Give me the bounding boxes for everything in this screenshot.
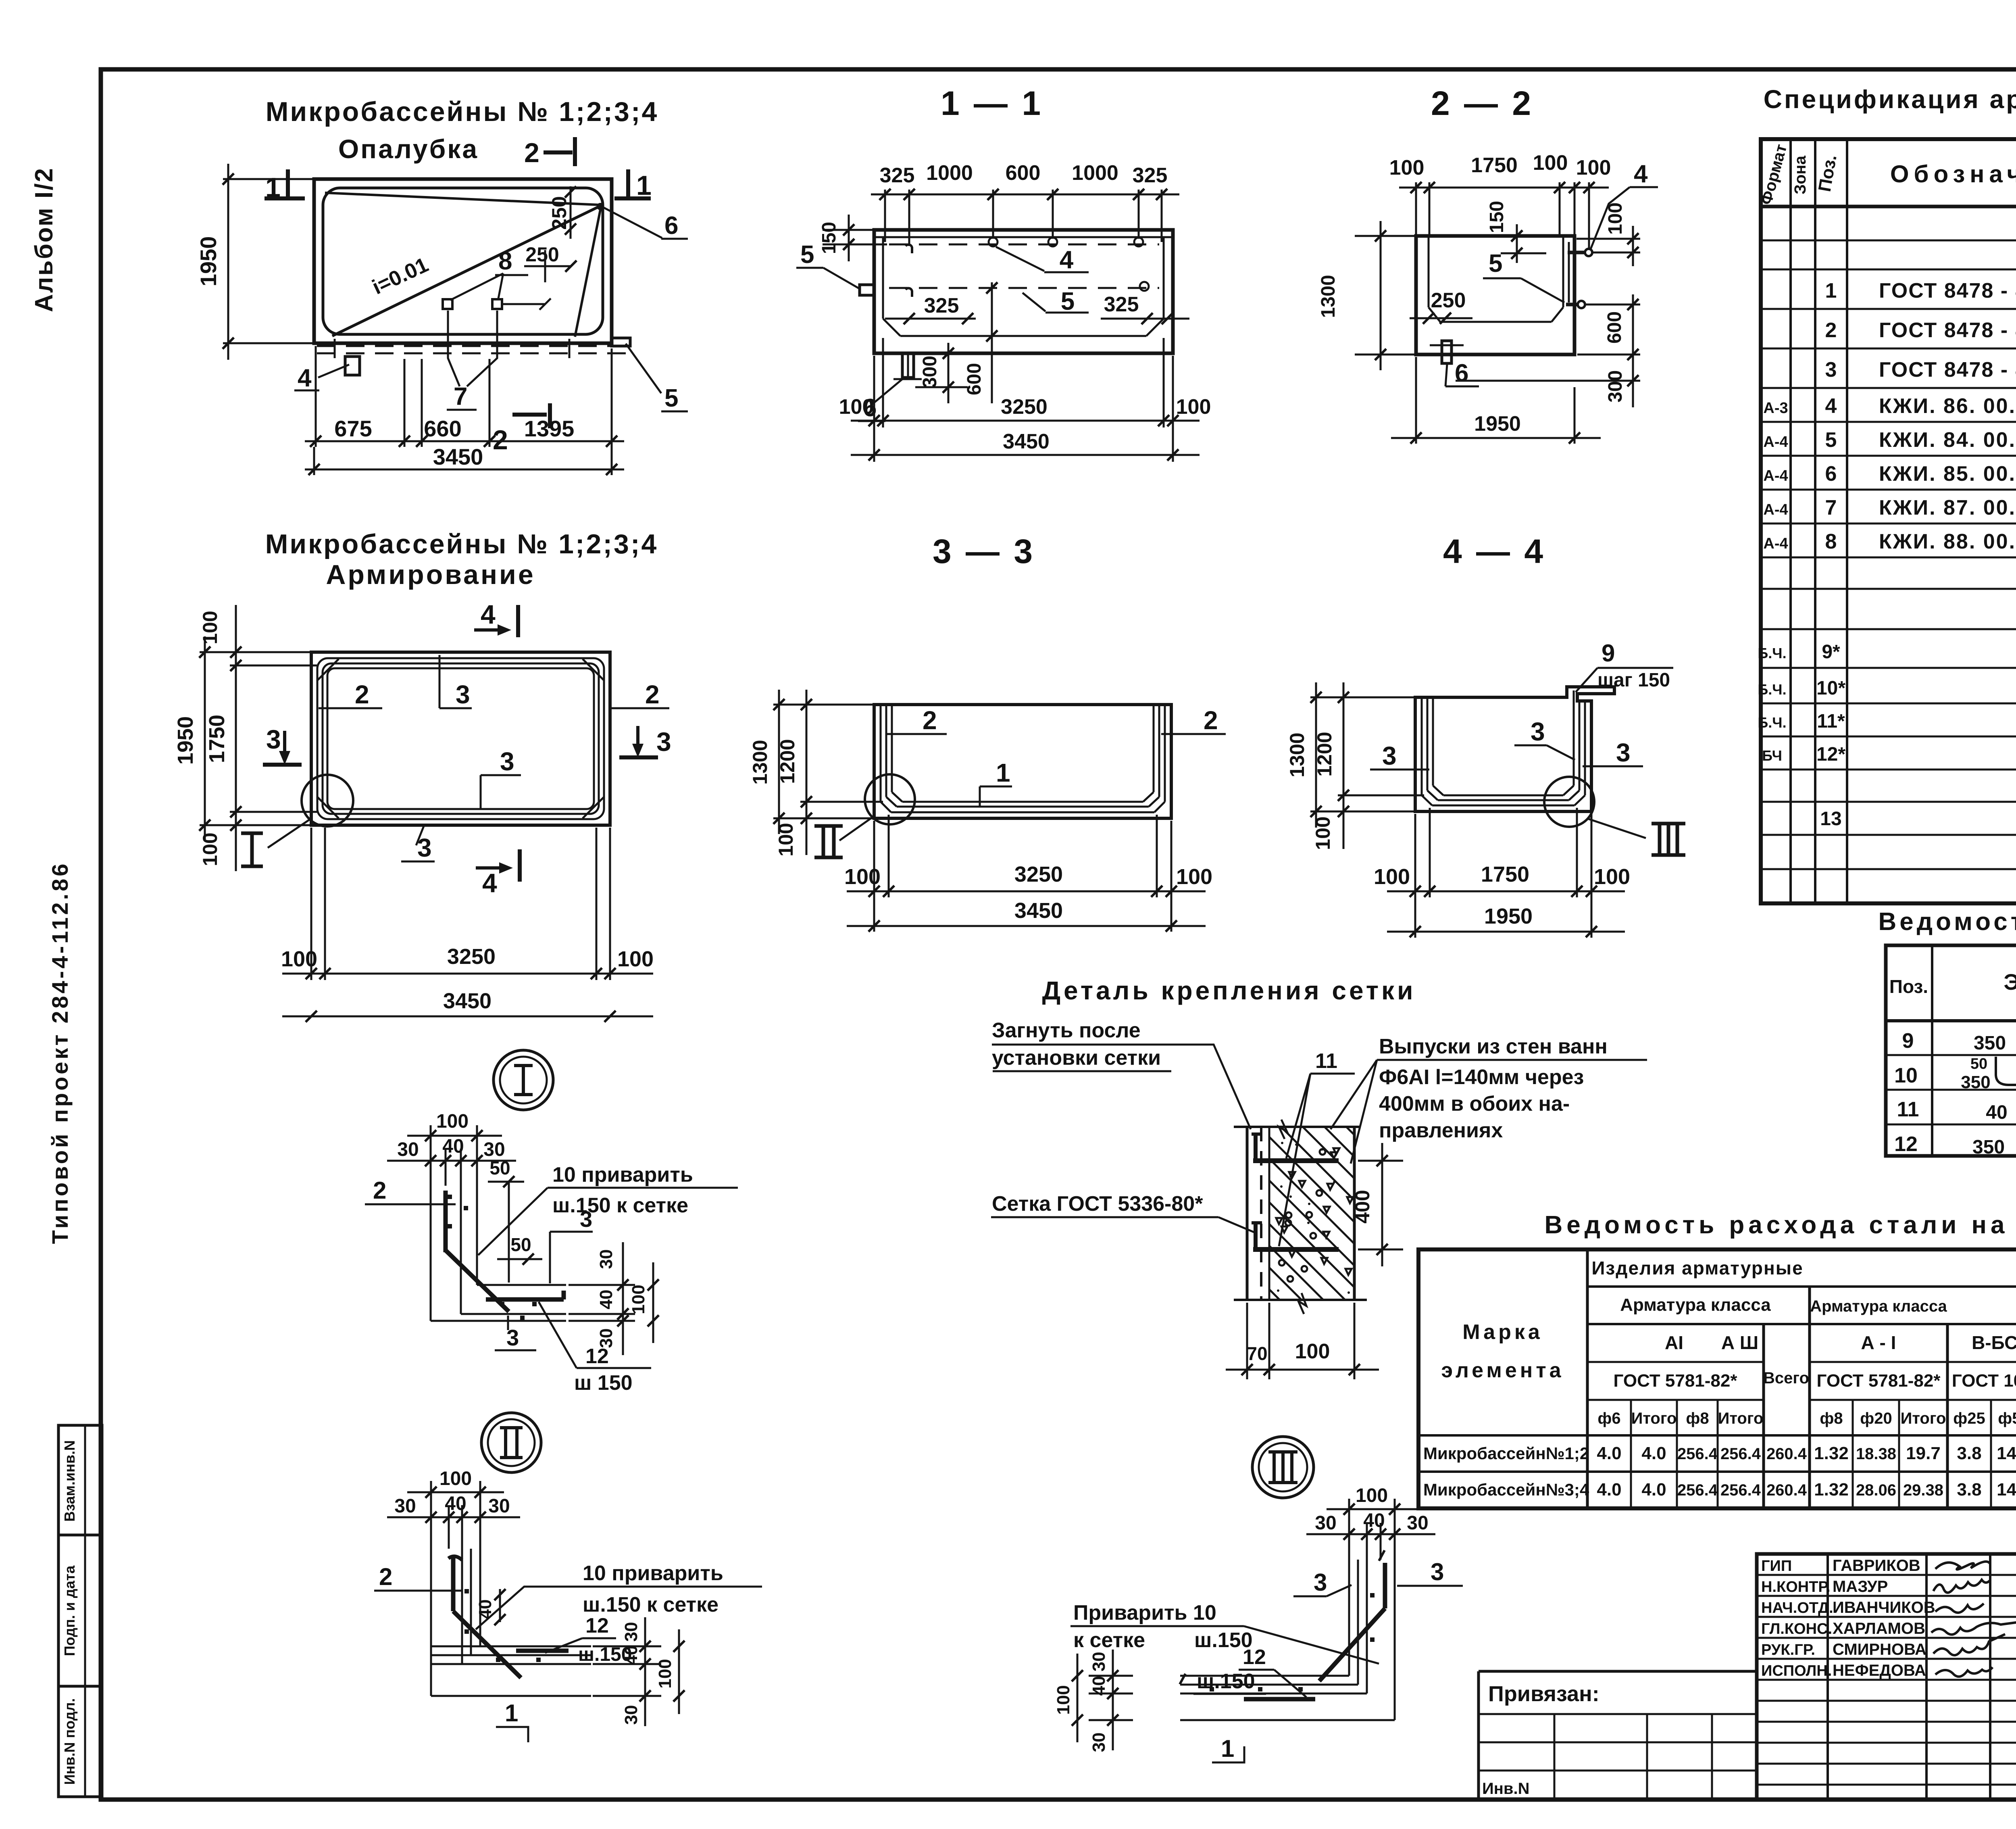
bath 2-2 right wall inner a	[1562, 236, 1564, 307]
floor mesh horizontal lines	[477, 1284, 566, 1286]
svg-text:5: 5	[664, 384, 678, 412]
anchor circle row1 b	[1048, 238, 1057, 246]
svg-text:325: 325	[1133, 164, 1168, 187]
svg-text:260.4: 260.4	[1766, 1445, 1807, 1463]
detail II circle marker	[481, 1413, 541, 1472]
corner diagonal bar	[446, 1250, 509, 1312]
steel table horizontals	[1587, 1285, 2016, 1288]
svg-text:30: 30	[1407, 1512, 1428, 1534]
svg-text:100: 100	[775, 823, 797, 856]
label 3 middle	[1514, 745, 1547, 747]
svg-text:100: 100	[655, 1659, 675, 1688]
reinforcement plan outer outline	[311, 652, 610, 825]
svg-text:ГАВРИКОВ: ГАВРИКОВ	[1833, 1557, 1920, 1575]
svg-text:13: 13	[1820, 808, 1841, 830]
svg-text:4: 4	[1825, 394, 1837, 418]
svg-text:2: 2	[379, 1563, 392, 1590]
floor mesh horizontal lines	[1180, 1675, 1349, 1677]
svg-text:КЖИ. 87. 00. 0: КЖИ. 87. 00. 0	[1879, 496, 2016, 519]
svg-text:ГИП: ГИП	[1761, 1558, 1792, 1575]
chamfer left	[883, 319, 900, 336]
bath 2-2 left wall inner	[1428, 236, 1430, 307]
svg-text:30: 30	[621, 1705, 641, 1725]
svg-text:КЖИ. 88. 00. 0: КЖИ. 88. 00. 0	[1879, 530, 2016, 553]
svg-text:100: 100	[1389, 156, 1425, 179]
bottom drain pipe	[1442, 341, 1452, 363]
svg-text:3: 3	[580, 1206, 592, 1232]
svg-text:А-4: А-4	[1763, 467, 1788, 484]
svg-text:МАЗУР: МАЗУР	[1833, 1578, 1888, 1595]
svg-text:РУК.ГР.: РУК.ГР.	[1761, 1641, 1815, 1658]
dim 100 above	[1348, 1499, 1350, 1560]
wall fitting right 5	[1566, 303, 1579, 307]
svg-text:КЖИ. 84. 00. 0: КЖИ. 84. 00. 0	[1879, 428, 2016, 452]
concrete hatching	[1269, 1289, 1280, 1300]
svg-text:А Ш: А Ш	[1721, 1332, 1758, 1353]
svg-text:400: 400	[1351, 1190, 1374, 1223]
svg-text:9*: 9*	[1822, 641, 1840, 663]
svg-text:28.06: 28.06	[1856, 1481, 1896, 1499]
svg-text:Загнуть после: Загнуть после	[992, 1019, 1141, 1042]
right dim 100	[1577, 238, 1640, 240]
right edge fitting 5	[612, 338, 630, 346]
dim 250 top right rotated	[570, 186, 572, 239]
svg-text:12: 12	[585, 1345, 609, 1368]
corner mesh tick BR	[583, 797, 604, 818]
svg-text:2: 2	[1825, 319, 1837, 342]
svg-text:675: 675	[334, 416, 372, 441]
bar section dots	[1370, 1593, 1375, 1598]
svg-text:Итого: Итого	[1718, 1410, 1764, 1427]
svg-text:100: 100	[844, 865, 881, 889]
svg-text:100: 100	[1605, 202, 1626, 235]
dim 150 inner top	[1516, 224, 1518, 263]
dim 400 right	[1358, 1160, 1403, 1162]
svg-text:400мм в обоих на-: 400мм в обоих на-	[1379, 1092, 1570, 1116]
svg-text:9: 9	[1902, 1029, 1914, 1053]
anchor circle row1 a	[989, 238, 998, 246]
slope ridge line top	[325, 193, 600, 205]
svg-text:30: 30	[1315, 1512, 1336, 1534]
dim 40 rotated	[499, 1589, 501, 1622]
svg-text:100: 100	[199, 611, 221, 644]
label 6 bottom leader	[871, 379, 902, 405]
svg-text:ф8: ф8	[1820, 1410, 1843, 1427]
anchor line to right with tick	[502, 303, 545, 305]
bottom dims row1	[1414, 814, 1416, 938]
dashed channel strip line 2	[317, 352, 626, 355]
bottom dims row2 3450	[282, 1016, 653, 1018]
roman numeral III label	[1652, 822, 1685, 826]
svg-text:1200: 1200	[776, 739, 799, 784]
svg-text:19.7: 19.7	[1906, 1443, 1941, 1463]
svg-text:350: 350	[1972, 1137, 2005, 1158]
svg-text:Зона: Зона	[1791, 155, 1809, 194]
svg-text:30: 30	[1089, 1733, 1109, 1752]
svg-text:100: 100	[629, 1285, 648, 1314]
svg-text:1: 1	[505, 1700, 518, 1727]
svg-text:3450: 3450	[1003, 430, 1050, 453]
svg-text:НАЧ.ОТД.: НАЧ.ОТД.	[1761, 1600, 1833, 1616]
left dim 1300	[773, 704, 873, 706]
right dim 300	[1456, 380, 1640, 382]
svg-text:Деталь крепления сетки: Деталь крепления сетки	[1042, 976, 1416, 1005]
label 2 right	[610, 707, 669, 709]
svg-text:100: 100	[1356, 1485, 1388, 1506]
svg-text:А-3: А-3	[1763, 400, 1788, 417]
svg-text:3: 3	[266, 724, 281, 754]
svg-text:11: 11	[1315, 1049, 1337, 1073]
detail circle II	[865, 774, 915, 824]
svg-text:100: 100	[1533, 151, 1568, 175]
svg-text:30: 30	[621, 1622, 641, 1642]
svg-text:Приварить 10: Приварить 10	[1073, 1601, 1216, 1625]
svg-text:12: 12	[1243, 1645, 1266, 1669]
wall mesh vertical lines	[1394, 1560, 1396, 1720]
chamfer left	[1429, 307, 1440, 322]
svg-text:ГОСТ 5781-82*: ГОСТ 5781-82*	[1817, 1371, 1941, 1391]
dim 300 pipe vertical	[948, 343, 950, 403]
svg-text:4.0: 4.0	[1641, 1480, 1666, 1499]
svg-text:30: 30	[1089, 1652, 1109, 1672]
svg-text:2: 2	[524, 138, 539, 168]
top dim chain	[1415, 182, 1417, 234]
svg-text:100: 100	[1295, 1340, 1330, 1363]
chamfers	[1422, 795, 1432, 805]
margin stamp boxes bottom-left	[58, 1425, 102, 1797]
leader 5 to right fitting	[626, 344, 661, 393]
svg-text:Опалубка: Опалубка	[338, 134, 479, 164]
svg-text:3450: 3450	[433, 444, 483, 469]
svg-text:30: 30	[596, 1249, 616, 1269]
svg-text:7: 7	[1825, 496, 1837, 519]
svg-text:1: 1	[996, 758, 1010, 787]
svg-text:Взам.инв.N: Взам.инв.N	[61, 1440, 78, 1522]
bottom dims 70 100	[1246, 1303, 1248, 1379]
svg-text:8: 8	[1825, 530, 1837, 553]
svg-text:350: 350	[1961, 1072, 1990, 1092]
svg-text:18.38: 18.38	[1856, 1445, 1896, 1463]
corner diagonal bar	[1319, 1608, 1385, 1681]
leader 4 to outlet	[318, 365, 349, 377]
left dim 1300	[1310, 697, 1414, 699]
mesh lines right wall	[1164, 705, 1166, 802]
dim 150 left	[823, 229, 873, 231]
spec table outer	[1761, 139, 2016, 903]
svg-text:4 — 4: 4 — 4	[1443, 532, 1545, 570]
dim 100 above	[430, 1481, 432, 1549]
left dim 100	[1077, 1654, 1079, 1742]
svg-text:к сетке: к сетке	[1073, 1629, 1145, 1652]
svg-text:600: 600	[1006, 161, 1041, 185]
mesh outline 1	[317, 658, 604, 819]
mesh lines right wall	[1584, 701, 1586, 795]
svg-text:40: 40	[1089, 1676, 1109, 1696]
anchor hook row2 left	[906, 288, 912, 297]
dim 1950 left: witness lines	[223, 178, 315, 180]
formwork plan outer outline	[314, 179, 612, 343]
left dim 1200 + 100	[1338, 795, 1424, 797]
svg-text:30: 30	[394, 1495, 416, 1517]
anchor circle row2 right	[1140, 282, 1149, 291]
steel table outer	[1418, 1249, 2016, 1508]
svg-text:2: 2	[923, 706, 937, 735]
svg-text:600: 600	[1604, 311, 1625, 344]
svg-text:Б.Ч.: Б.Ч.	[1758, 645, 1786, 661]
svg-text:3: 3	[1314, 1569, 1327, 1596]
svg-text:4: 4	[482, 868, 497, 898]
svg-text:СМИРНОВА: СМИРНОВА	[1833, 1641, 1926, 1658]
svg-text:3250: 3250	[1001, 395, 1048, 419]
svg-text:14.3: 14.3	[1997, 1443, 2016, 1463]
svg-text:10 приварить: 10 приварить	[583, 1562, 723, 1585]
svg-text:установки сетки: установки сетки	[992, 1046, 1161, 1070]
mesh lines left wall	[880, 705, 882, 802]
svg-text:14.3: 14.3	[1997, 1480, 2016, 1499]
svg-text:ГОСТ 8478 - 81: ГОСТ 8478 - 81	[1879, 279, 2016, 302]
label 3 top	[439, 655, 441, 708]
svg-text:70: 70	[1247, 1343, 1267, 1364]
svg-text:50: 50	[1970, 1055, 1987, 1072]
svg-text:3250: 3250	[1014, 862, 1063, 886]
svg-text:2: 2	[645, 680, 660, 709]
svg-text:Арматура класса: Арматура класса	[1810, 1297, 1947, 1315]
svg-text:260.4: 260.4	[1766, 1481, 1807, 1499]
leader 7 from anchors	[448, 311, 460, 386]
svg-text:А-4: А-4	[1763, 434, 1788, 450]
channel tick 2	[447, 339, 449, 358]
right dims 30 40 30	[569, 1284, 635, 1286]
svg-text:250: 250	[525, 243, 559, 266]
svg-text:1750: 1750	[205, 715, 229, 763]
svg-text:4: 4	[481, 599, 496, 629]
bath 4-4 outer outline	[1415, 687, 1614, 811]
svg-text:4.0: 4.0	[1597, 1443, 1621, 1463]
svg-text:40: 40	[596, 1290, 616, 1310]
dim 100 above	[430, 1125, 432, 1186]
left dim 1950	[200, 651, 313, 653]
anchor circle row1 c	[1134, 238, 1143, 246]
svg-text:А - I: А - I	[1861, 1332, 1896, 1353]
svg-text:10: 10	[1894, 1064, 1918, 1087]
label 2 right	[1161, 733, 1226, 735]
bent bar top	[1254, 1132, 1258, 1161]
svg-text:Изделия арматурные: Изделия арматурные	[1591, 1258, 1803, 1278]
svg-text:3.8: 3.8	[1957, 1480, 1981, 1499]
svg-text:6: 6	[1825, 462, 1837, 486]
svg-text:КЖИ. 85. 00. 0: КЖИ. 85. 00. 0	[1879, 462, 2016, 486]
wall mesh vertical lines	[430, 1186, 432, 1321]
svg-text:Привязан:: Привязан:	[1488, 1682, 1599, 1706]
detail I circle marker	[494, 1050, 553, 1110]
bottom drain pipe	[902, 353, 914, 377]
svg-text:Микробассейны № 1;2;3;4: Микробассейны № 1;2;3;4	[266, 96, 659, 127]
svg-text:1750: 1750	[1481, 862, 1529, 886]
label 3 bottom	[416, 825, 424, 845]
svg-text:1: 1	[636, 170, 652, 201]
svg-text:100: 100	[1312, 816, 1334, 850]
corner diagonal bar	[453, 1611, 521, 1678]
svg-text:100: 100	[439, 1468, 472, 1489]
left dim 1750 + 100s	[230, 665, 319, 667]
svg-text:Н.КОНТР.: Н.КОНТР.	[1761, 1579, 1831, 1595]
svg-text:1.32: 1.32	[1814, 1443, 1849, 1463]
svg-text:4: 4	[1634, 160, 1648, 188]
svg-text:Ведомость деталей: Ведомость деталей	[1879, 908, 2016, 936]
svg-text:325: 325	[880, 164, 915, 187]
svg-text:Поз.: Поз.	[1889, 976, 1928, 997]
chamfer right	[1552, 307, 1563, 322]
svg-text:ф20: ф20	[1860, 1410, 1892, 1427]
dim 325 inner right	[1101, 318, 1189, 320]
dim 30 40 30 above	[445, 1149, 447, 1186]
svg-text:5: 5	[800, 241, 814, 269]
svg-text:100: 100	[617, 947, 654, 971]
dim 1950 line	[227, 164, 229, 360]
svg-text:100: 100	[281, 947, 317, 971]
bath 1-1 rim inner line	[874, 236, 1173, 238]
svg-text:6: 6	[664, 212, 678, 240]
svg-text:Б.Ч.: Б.Ч.	[1758, 681, 1786, 698]
anchor hook row1 left	[906, 244, 912, 253]
svg-text:256.4: 256.4	[1720, 1481, 1761, 1499]
svg-text:1: 1	[1825, 279, 1837, 302]
svg-text:10 приварить: 10 приварить	[552, 1163, 693, 1187]
top dim chain line	[871, 194, 1179, 196]
bottom dim 1950	[1415, 357, 1417, 444]
svg-text:1.32: 1.32	[1814, 1480, 1849, 1499]
svg-text:3 — 3: 3 — 3	[933, 532, 1035, 570]
hidden anchors dashed row 2	[889, 287, 1159, 289]
svg-text:Микробассейн№3;4: Микробассейн№3;4	[1423, 1480, 1589, 1499]
dim 600 mid vertical	[991, 282, 993, 403]
svg-text:ш 150: ш 150	[574, 1371, 633, 1395]
svg-text:660: 660	[424, 416, 461, 441]
svg-text:1950: 1950	[196, 236, 221, 287]
steel table verticals	[1586, 1249, 1589, 1508]
vedomost detaley table outer	[1886, 945, 2016, 1156]
svg-text:5: 5	[1825, 428, 1837, 452]
embedded anchor square 2	[492, 299, 502, 309]
svg-text:Инв.N подл.: Инв.N подл.	[61, 1698, 78, 1785]
svg-text:ХАРЛАМОВ: ХАРЛАМОВ	[1833, 1620, 1925, 1637]
anchor hook top right 4	[1568, 251, 1586, 254]
svg-text:ГЛ.КОНС.: ГЛ.КОНС.	[1761, 1620, 1832, 1637]
svg-text:Армирование: Армирование	[326, 559, 535, 590]
break marks	[1279, 1120, 1287, 1139]
left dim 1200 + 100	[800, 801, 883, 803]
signatures	[1935, 1562, 1990, 1570]
svg-text:11*: 11*	[1817, 711, 1845, 732]
svg-text:Спецификация армирования мик: Спецификация армирования микробассейнов …	[1764, 85, 2016, 114]
svg-text:100: 100	[839, 395, 874, 419]
svg-text:40: 40	[1986, 1102, 2007, 1123]
svg-text:3450: 3450	[443, 989, 492, 1013]
svg-text:325: 325	[924, 294, 959, 317]
concrete dots and triangles	[1307, 1222, 1310, 1224]
svg-text:12*: 12*	[1816, 744, 1845, 765]
formwork plan inner outline	[323, 188, 603, 334]
mesh dashed line	[1260, 1127, 1262, 1300]
svg-text:ГОСТ 8478 - 81: ГОСТ 8478 - 81	[1879, 319, 2016, 342]
svg-text:Итого: Итого	[1631, 1410, 1677, 1427]
channel tick 3	[496, 339, 498, 358]
detail circle III	[1544, 777, 1594, 827]
svg-text:5: 5	[1061, 288, 1075, 315]
svg-text:5: 5	[1489, 250, 1502, 277]
right short diagonal	[575, 210, 600, 337]
svg-text:1750: 1750	[1471, 154, 1518, 177]
mesh lines left wall	[1421, 697, 1423, 795]
svg-text:40: 40	[475, 1600, 495, 1619]
wall mesh vertical lines	[430, 1549, 432, 1696]
svg-text:9: 9	[1602, 640, 1615, 667]
svg-text:Арматура класса: Арматура класса	[1620, 1295, 1771, 1315]
svg-text:НЕФЕДОВА: НЕФЕДОВА	[1833, 1662, 1926, 1679]
embedded anchor square 1	[443, 299, 452, 309]
svg-text:ГОСТ 8478 - 81: ГОСТ 8478 - 81	[1879, 358, 2016, 382]
svg-text:элемента: элемента	[1441, 1359, 1564, 1382]
svg-text:250: 250	[548, 196, 571, 229]
wall section outline	[1234, 1126, 1361, 1128]
svg-text:Поз.: Поз.	[1815, 153, 1841, 193]
svg-text:Эскиз: Эскиз	[2004, 969, 2016, 995]
svg-text:256.4: 256.4	[1677, 1445, 1718, 1463]
bath 3-3 outer outline	[874, 705, 1171, 818]
label 4 with leader	[996, 247, 1044, 271]
dim 325 inner left	[885, 318, 976, 320]
title block signature table	[1757, 1554, 2016, 1800]
wall bent bar with top break	[1379, 1550, 1385, 1561]
corner mesh tick TL	[317, 659, 339, 681]
mesh lines bottom	[1432, 805, 1574, 807]
svg-text:100: 100	[1176, 865, 1212, 889]
dashed channel strip line 1	[317, 345, 626, 347]
svg-text:40: 40	[442, 1136, 464, 1157]
svg-text:3: 3	[1531, 717, 1545, 746]
bottom dims row2 3450	[847, 925, 1206, 927]
svg-text:Микробассейны № 1;2;3;4: Микробассейны № 1;2;3;4	[265, 529, 658, 559]
label 3 right	[1583, 765, 1643, 767]
bent bar bottom	[1254, 1221, 1258, 1249]
svg-text:Сетка ГОСТ 5336-80*: Сетка ГОСТ 5336-80*	[992, 1192, 1203, 1216]
svg-text:БЧ: БЧ	[1762, 747, 1782, 764]
svg-text:3.8: 3.8	[1957, 1443, 1981, 1463]
bar section dots	[448, 1195, 452, 1199]
svg-text:А-4: А-4	[1763, 501, 1788, 518]
svg-text:100: 100	[1576, 156, 1611, 179]
svg-text:100: 100	[436, 1111, 469, 1132]
spec table vertical grid	[1789, 139, 1792, 903]
hidden anchors dashed row 1	[889, 244, 1159, 246]
svg-text:1 — 1: 1 — 1	[941, 84, 1043, 122]
svg-text:50: 50	[489, 1157, 510, 1178]
svg-text:3: 3	[1825, 358, 1837, 382]
svg-text:3: 3	[1616, 738, 1631, 767]
svg-text:1000: 1000	[926, 161, 973, 185]
bottom dims row1	[873, 356, 875, 462]
svg-text:3450: 3450	[1014, 899, 1063, 923]
svg-text:1300: 1300	[1286, 732, 1308, 777]
roman numeral I label	[241, 832, 263, 835]
label 2 left	[319, 707, 382, 709]
channel tick 4	[569, 339, 571, 358]
spec header separator	[1761, 205, 2016, 209]
svg-text:250: 250	[1431, 289, 1466, 312]
svg-text:1: 1	[1221, 1735, 1234, 1762]
bath 1-1 outer outline	[874, 230, 1173, 353]
spec table horizontal grid	[1761, 206, 2016, 208]
